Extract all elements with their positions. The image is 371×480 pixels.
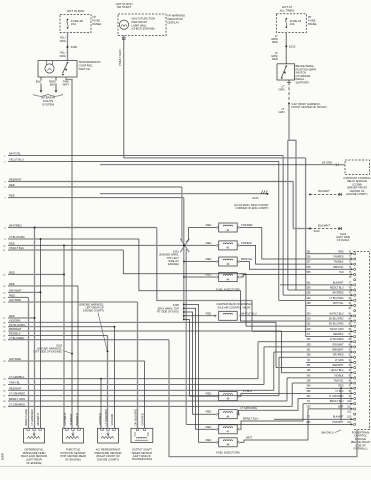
svg-text:GRY/RED: GRY/RED — [141, 413, 145, 425]
svg-text:WHT/LT BLU: WHT/LT BLU — [241, 311, 257, 315]
svg-text:LT BLU/RED: LT BLU/RED — [9, 336, 24, 340]
svg-text:WHT/LT BLU: WHT/LT BLU — [330, 312, 344, 315]
svg-text:348: 348 — [307, 328, 312, 331]
svg-text:WHT/RED: WHT/RED — [9, 224, 22, 228]
svg-text:DK BLU/ORG: DK BLU/ORG — [329, 318, 344, 321]
svg-text:DK GRN: DK GRN — [322, 161, 333, 165]
svg-text:556: 556 — [307, 390, 312, 393]
svg-text:BRN/LT GRN: BRN/LT GRN — [9, 397, 25, 401]
svg-text:60698: 60698 — [2, 452, 5, 460]
svg-text:555: 555 — [307, 271, 312, 274]
svg-text:OR START: OR START — [117, 5, 132, 9]
svg-text:LT BLU/RED: LT BLU/RED — [330, 338, 344, 341]
svg-text:WHT: WHT — [63, 83, 70, 87]
svg-text:GRY/RED: GRY/RED — [333, 354, 344, 357]
svg-text:558: 558 — [307, 266, 312, 269]
svg-text:358: 358 — [307, 354, 312, 357]
svg-text:RED: RED — [9, 183, 15, 187]
svg-text:343: 343 — [307, 374, 312, 377]
svg-text:361: 361 — [307, 349, 312, 352]
svg-text:RED/WHT: RED/WHT — [9, 178, 22, 182]
svg-text:VIO/BLK: VIO/BLK — [334, 374, 344, 377]
svg-text:RED: RED — [206, 410, 212, 414]
svg-text:100: 100 — [347, 400, 352, 403]
svg-text:BRN/LT BLU: BRN/LT BLU — [330, 400, 344, 403]
svg-text:BRN/WHT: BRN/WHT — [332, 349, 344, 352]
svg-text:TAN/WHT: TAN/WHT — [69, 413, 73, 425]
svg-text:BLK/WHT: BLK/WHT — [318, 189, 330, 193]
svg-text:15A: 15A — [71, 22, 76, 26]
svg-text:DK BLU/ORG: DK BLU/ORG — [9, 323, 26, 327]
svg-text:557: 557 — [307, 261, 312, 264]
svg-text:361: 361 — [307, 281, 312, 284]
svg-text:FIREWALL): FIREWALL) — [354, 447, 368, 451]
svg-text:WHT/YEL: WHT/YEL — [333, 302, 344, 305]
svg-text:RED: RED — [206, 223, 212, 227]
svg-text:RED: RED — [206, 311, 212, 315]
svg-text:ENGINE COMPT): ENGINE COMPT) — [97, 458, 119, 462]
svg-text:RED/WHT: RED/WHT — [332, 364, 344, 367]
svg-text:RED: RED — [272, 40, 278, 44]
svg-text:346: 346 — [307, 385, 312, 388]
svg-text:BRN/YEL: BRN/YEL — [241, 257, 253, 261]
svg-text:359: 359 — [307, 286, 312, 289]
svg-text:TAN/RED: TAN/RED — [333, 255, 344, 258]
svg-text:TAN/BLK: TAN/BLK — [241, 241, 252, 245]
svg-text:RED: RED — [206, 438, 212, 442]
svg-text:RED: RED — [338, 250, 343, 253]
svg-text:RED/LT BLU: RED/LT BLU — [330, 286, 344, 289]
svg-text:361: 361 — [307, 250, 312, 253]
svg-text:FUEL INJECTORS: FUEL INJECTORS — [216, 288, 240, 292]
svg-text:LT GRN/RED: LT GRN/RED — [9, 392, 25, 396]
svg-text:VIO/GRN: VIO/GRN — [9, 318, 20, 322]
svg-text:380: 380 — [307, 338, 312, 341]
svg-text:RED: RED — [272, 57, 278, 61]
svg-text:363: 363 — [307, 395, 312, 398]
svg-text:TRANSMISSION): TRANSMISSION) — [132, 457, 153, 461]
svg-text:OF ENGINE): OF ENGINE) — [26, 461, 42, 465]
svg-text:RED: RED — [206, 425, 212, 429]
svg-text:BLK/WHT: BLK/WHT — [333, 416, 344, 419]
svg-text:GRY/WHT: GRY/WHT — [9, 288, 22, 292]
svg-text:(6M ONLY): (6M ONLY) — [321, 431, 334, 435]
svg-text:199: 199 — [307, 297, 312, 300]
svg-text:BRN/YEL: BRN/YEL — [333, 266, 344, 269]
svg-text:BLK/WHT: BLK/WHT — [333, 281, 344, 284]
svg-text:103: 103 — [347, 416, 352, 419]
svg-text:DK BLU/ORG: DK BLU/ORG — [134, 409, 138, 426]
svg-text:FUEL INJECTORS: FUEL INJECTORS — [216, 450, 240, 454]
svg-text:TAN/BLK: TAN/BLK — [334, 261, 344, 264]
svg-text:YEL/LT BLU: YEL/LT BLU — [9, 158, 24, 162]
svg-text:200: 200 — [307, 318, 312, 321]
svg-text:TAN/LT GRN: TAN/LT GRN — [330, 328, 344, 331]
svg-text:GRN: GRN — [279, 88, 285, 92]
svg-text:LT GRN/RED: LT GRN/RED — [9, 403, 25, 407]
svg-text:BRN/LT GRN: BRN/LT GRN — [24, 409, 28, 425]
svg-text:104: 104 — [347, 421, 352, 424]
svg-text:LEFT SIDE OF ENGINE): LEFT SIDE OF ENGINE) — [33, 350, 62, 354]
svg-text:354: 354 — [307, 312, 312, 315]
svg-text:LT GRN/ORG: LT GRN/ORG — [241, 406, 257, 410]
svg-text:201: 201 — [307, 323, 312, 326]
svg-text:FRONT CENTER OF TRUNK): FRONT CENTER OF TRUNK) — [292, 105, 327, 109]
svg-text:RED/WHT: RED/WHT — [36, 413, 40, 426]
svg-text:BRN/WHT: BRN/WHT — [9, 327, 22, 331]
svg-text:LT GRN/ORG: LT GRN/ORG — [329, 395, 344, 398]
svg-text:ALL TIMES: ALL TIMES — [280, 8, 295, 12]
svg-text:646: 646 — [307, 421, 312, 424]
svg-text:LT GRN/RED: LT GRN/RED — [30, 409, 34, 425]
svg-text:359: 359 — [307, 343, 312, 346]
svg-text:PNK/LT GRN: PNK/LT GRN — [118, 49, 122, 66]
svg-text:S306: S306 — [71, 45, 78, 49]
svg-text:GRY/WHT: GRY/WHT — [332, 343, 344, 346]
svg-text:LT GRN/RED: LT GRN/RED — [104, 409, 108, 425]
svg-text:PANEL: PANEL — [308, 22, 317, 26]
svg-text:TAN/RED: TAN/RED — [241, 223, 253, 227]
svg-text:RED: RED — [206, 392, 212, 396]
svg-text:BLK: BLK — [36, 79, 41, 83]
svg-text:OF ENGINE): OF ENGINE) — [65, 458, 81, 462]
svg-text:GRN: GRN — [279, 110, 285, 114]
svg-text:WHT: WHT — [246, 436, 252, 440]
svg-text:S120: S120 — [314, 229, 321, 233]
svg-text:ENGINE COMPT): ENGINE COMPT) — [83, 309, 104, 313]
svg-text:DISPLAY: DISPLAY — [168, 20, 180, 24]
svg-text:198: 198 — [307, 302, 312, 305]
svg-text:RED: RED — [9, 282, 15, 286]
svg-text:RED: RED — [9, 294, 15, 298]
svg-text:LT BLU/ORG: LT BLU/ORG — [9, 235, 25, 239]
svg-text:RED/BLK: RED/BLK — [333, 333, 344, 336]
svg-text:GRY/RED: GRY/RED — [9, 357, 21, 361]
svg-text:PNK/LT BLU: PNK/LT BLU — [9, 246, 24, 250]
svg-text:RED: RED — [206, 241, 212, 245]
svg-text:101: 101 — [347, 405, 352, 408]
svg-text:ORG: ORG — [60, 54, 66, 58]
svg-text:355: 355 — [307, 292, 312, 295]
svg-text:IDLE AIR CONTROL VALVE: IDLE AIR CONTROL VALVE — [218, 305, 251, 309]
svg-text:BLK: BLK — [50, 83, 55, 87]
svg-text:CORNER OF ENG COMPT): CORNER OF ENG COMPT) — [236, 206, 269, 210]
svg-text:10A: 10A — [290, 22, 295, 26]
svg-text:LT GRN/BLK: LT GRN/BLK — [9, 375, 25, 379]
svg-text:RED/WHT: RED/WHT — [9, 386, 22, 390]
svg-text:RED: RED — [206, 257, 212, 261]
svg-text:RED/BLK: RED/BLK — [9, 332, 21, 336]
svg-text:LT BLU: LT BLU — [336, 390, 344, 393]
svg-text:102: 102 — [347, 411, 352, 414]
svg-text:GRY/WHT: GRY/WHT — [63, 413, 67, 426]
svg-text:RED: RED — [9, 271, 15, 275]
svg-text:TAN/YEL: TAN/YEL — [334, 380, 344, 383]
svg-text:LT BLU/ORG: LT BLU/ORG — [330, 297, 344, 300]
svg-text:DK BLU/ORG: DK BLU/ORG — [329, 323, 344, 326]
svg-text:ENGINE): ENGINE) — [168, 262, 179, 266]
svg-text:YEL/LT BLU: YEL/LT BLU — [330, 369, 343, 372]
svg-text:BRN/WHT: BRN/WHT — [75, 413, 79, 426]
svg-text:TAN: TAN — [339, 271, 344, 274]
svg-text:351: 351 — [307, 364, 312, 367]
svg-text:199: 199 — [307, 369, 312, 372]
svg-text:HOT IN RUN: HOT IN RUN — [67, 9, 84, 13]
svg-text:BRN/LT BLU: BRN/LT BLU — [243, 417, 258, 421]
svg-text:ORG: ORG — [60, 39, 66, 43]
svg-text:BLK/WHT: BLK/WHT — [318, 223, 330, 227]
svg-text:VIO/GRN: VIO/GRN — [110, 414, 114, 425]
svg-text:556: 556 — [307, 255, 312, 258]
svg-text:350: 350 — [307, 405, 312, 408]
svg-text:G103: G103 — [252, 196, 259, 200]
svg-text:LT BLU: LT BLU — [243, 389, 252, 393]
svg-text:SWITCH: SWITCH — [79, 67, 90, 71]
svg-text:OF DASH): OF DASH) — [337, 238, 350, 242]
svg-text:PNK/WHT: PNK/WHT — [332, 421, 344, 424]
svg-text:GRY/RED: GRY/RED — [98, 413, 102, 425]
svg-text:WHT/RED: WHT/RED — [332, 292, 343, 295]
svg-text:WHT/YEL: WHT/YEL — [9, 152, 21, 156]
svg-text:ENGINE COMPT): ENGINE COMPT) — [347, 192, 368, 196]
svg-text:SYSTEM: SYSTEM — [42, 102, 54, 106]
svg-text:PANEL: PANEL — [93, 22, 102, 26]
svg-text:RED: RED — [9, 314, 15, 318]
svg-text:199: 199 — [307, 380, 312, 383]
svg-text:S210: S210 — [289, 45, 296, 49]
svg-text:TAN/YEL: TAN/YEL — [9, 381, 21, 385]
svg-text:(CHECK ENGINE): (CHECK ENGINE) — [132, 27, 155, 31]
svg-text:RED: RED — [9, 242, 15, 246]
svg-text:RED: RED — [9, 194, 15, 198]
svg-text:RED: RED — [206, 273, 212, 277]
svg-text:GRY/RED: GRY/RED — [9, 298, 21, 302]
svg-text:RT SIDE OF ENG): RT SIDE OF ENG) — [157, 309, 179, 313]
svg-text:LT GRN: LT GRN — [335, 359, 344, 362]
svg-text:SUPPORT): SUPPORT) — [296, 81, 310, 85]
